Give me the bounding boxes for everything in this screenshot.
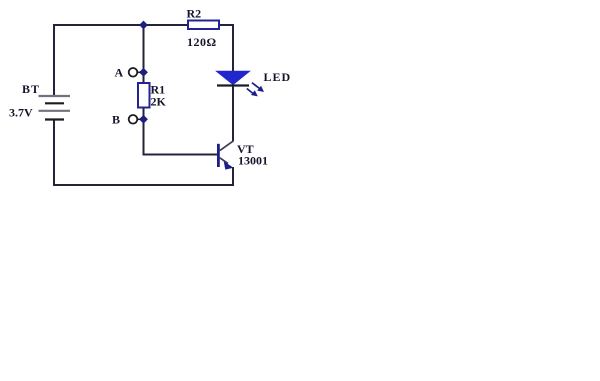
transistor VT emitter arrowhead <box>224 161 234 169</box>
wire: top bus from left corner to R2 left lead <box>54 25 188 96</box>
svg-text:2K: 2K <box>151 95 167 109</box>
svg-text:BT: BT <box>22 82 40 96</box>
wire: LED cathode down to transistor collector junction <box>232 85 234 141</box>
transistor VT collector stroke <box>220 141 234 151</box>
terminal B circle <box>129 115 138 124</box>
terminal A lead <box>137 71 141 73</box>
resistor R2 body <box>188 21 219 30</box>
battery BT positive plate (lower long) <box>39 110 71 112</box>
wire: R2 right lead and right vertical down to LED anode <box>219 25 233 72</box>
transistor VT emitter stroke <box>220 158 228 164</box>
LED D1 triangle <box>217 71 250 84</box>
junction node at top bus and middle branch <box>139 21 148 30</box>
LED light arrow 1 <box>252 83 264 92</box>
svg-text:R2: R2 <box>187 6 202 20</box>
transistor VT base bar <box>217 144 220 167</box>
resistor R1 body <box>138 83 150 108</box>
LED D1 cathode bar <box>217 84 249 86</box>
svg-text:13001: 13001 <box>238 154 268 168</box>
wire: battery negative down, bottom bus, and up to emitter <box>54 120 233 185</box>
svg-text:3.7V: 3.7V <box>9 105 33 119</box>
junction node A on middle branch <box>139 68 148 77</box>
junction node B on middle branch <box>139 115 148 124</box>
svg-text:B: B <box>112 113 120 127</box>
wire: middle branch from top bus down to R1 top (through node A) <box>143 25 145 83</box>
battery BT negative plate (bottom short) <box>45 118 64 120</box>
svg-text:A: A <box>115 66 124 80</box>
terminal A circle <box>129 68 138 77</box>
LED light arrow 2 <box>247 89 258 97</box>
svg-text:LED: LED <box>264 70 292 84</box>
battery BT positive plate (top long) <box>39 95 71 97</box>
terminal B lead <box>137 118 141 120</box>
svg-text:120Ω: 120Ω <box>187 35 217 49</box>
wire: R1 bottom through node B down then right to transistor base <box>144 108 219 155</box>
battery BT negative plate (upper short) <box>45 102 64 104</box>
